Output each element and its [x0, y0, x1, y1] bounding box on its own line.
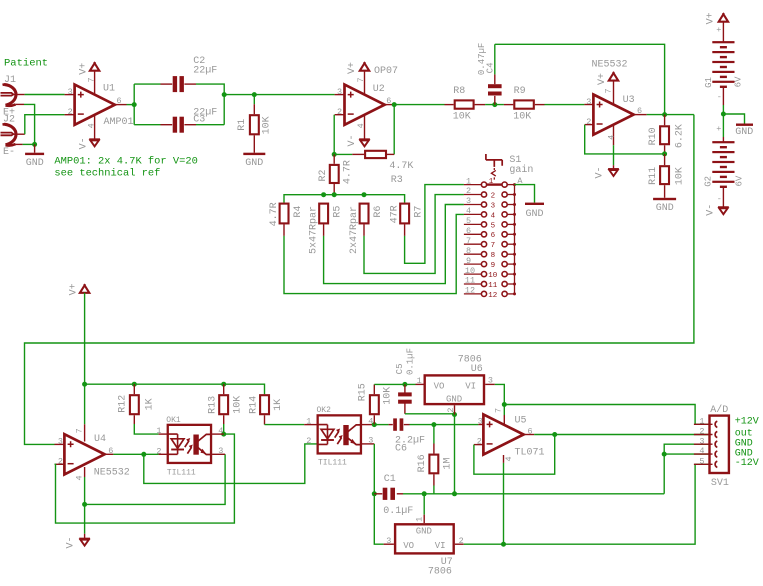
- svg-text:10K: 10K: [675, 167, 686, 185]
- svg-text:6V: 6V: [733, 76, 743, 87]
- svg-text:AMP01: AMP01: [104, 117, 134, 128]
- junction R6 top: [362, 192, 367, 197]
- svg-text:6: 6: [386, 96, 391, 106]
- svg-text:6: 6: [466, 226, 471, 236]
- junction bus at U4 pin7: [82, 382, 87, 387]
- wire U1 output to C2/C3 and U2 pin3: [127, 104, 135, 106]
- svg-text:U5: U5: [515, 415, 527, 426]
- svg-text:C1: C1: [384, 474, 396, 485]
- svg-text:V-: V-: [705, 204, 716, 216]
- ground battery GND: [736, 124, 753, 126]
- wire C3 to node: [196, 124, 224, 126]
- wire U3 pin4 to V-: [613, 145, 615, 165]
- ground patient GND: [34, 144, 36, 152]
- wire U5 pin4 to -12V rail: [503, 463, 505, 544]
- svg-text:U3: U3: [623, 95, 635, 106]
- svg-text:4: 4: [218, 426, 223, 436]
- supply V- at U1 pin4: [78, 137, 100, 149]
- svg-text:R16: R16: [417, 454, 428, 472]
- svg-text:4: 4: [356, 123, 366, 128]
- wire R14 to OK2 pin1: [265, 424, 305, 426]
- battery G1 6V: [704, 22, 743, 114]
- junction bus at R13: [221, 382, 226, 387]
- junction U5 output feedback: [552, 432, 557, 437]
- junction R5 top: [321, 192, 326, 197]
- svg-text:3: 3: [218, 446, 223, 456]
- junction U6 GND on rail: [452, 491, 457, 496]
- wire battery midpoint to GND: [723, 114, 744, 124]
- junction patient ground: [32, 142, 37, 147]
- svg-text:12: 12: [465, 286, 475, 296]
- capacitor C1 0.1uF: [374, 474, 413, 517]
- svg-text:7: 7: [491, 242, 496, 250]
- svg-text:3: 3: [478, 417, 483, 427]
- svg-text:A/D: A/D: [710, 404, 728, 416]
- svg-text:VI: VI: [465, 381, 476, 391]
- junction U1 output: [132, 102, 137, 107]
- svg-text:6: 6: [528, 427, 533, 437]
- svg-text:10K: 10K: [513, 112, 531, 123]
- resistor R14 1K: [249, 395, 285, 424]
- svg-text:V-: V-: [595, 166, 606, 178]
- svg-text:V-: V-: [78, 137, 89, 149]
- regulator U6 7806: [416, 355, 495, 415]
- svg-text:4.7R: 4.7R: [342, 160, 353, 184]
- svg-text:3: 3: [699, 436, 704, 446]
- svg-text:8: 8: [466, 246, 471, 256]
- op-amp U2 OP07: [335, 66, 398, 139]
- junction battery midpoint: [721, 112, 726, 117]
- svg-text:R3: R3: [391, 175, 403, 186]
- svg-text:4: 4: [466, 206, 471, 216]
- svg-text:3: 3: [368, 436, 373, 446]
- wire node to U2 pin3: [224, 94, 334, 96]
- svg-text:2: 2: [156, 446, 161, 456]
- junction SV1 ground pins: [662, 452, 667, 457]
- svg-text:6: 6: [491, 232, 496, 240]
- svg-text:10K: 10K: [261, 116, 272, 134]
- svg-text:see technical ref: see technical ref: [54, 167, 160, 179]
- svg-text:U2: U2: [373, 84, 385, 95]
- svg-text:+12V: +12V: [735, 417, 759, 428]
- svg-text:+: +: [716, 25, 721, 35]
- svg-text:R6: R6: [373, 206, 384, 218]
- svg-text:+: +: [716, 124, 721, 134]
- junction +12V at U5 pin7: [502, 402, 507, 407]
- supply V+ at U1 pin7: [78, 62, 99, 75]
- svg-text:R10: R10: [648, 127, 659, 145]
- wire R13 to OK1 pin4: [223, 424, 225, 434]
- svg-text:10: 10: [465, 266, 475, 276]
- supply V- at U3 pin4: [595, 165, 619, 178]
- svg-text:-: -: [717, 194, 722, 204]
- svg-text:2: 2: [477, 436, 482, 446]
- svg-text:C5: C5: [395, 363, 405, 374]
- svg-text:1K: 1K: [273, 399, 284, 411]
- wire U6 pin3 to +12V rail: [495, 384, 505, 404]
- resistor R13 10K: [208, 384, 244, 424]
- svg-text:6.2K: 6.2K: [675, 124, 686, 148]
- junction U7 GND on rail: [422, 491, 427, 496]
- supply V- at G2: [705, 204, 728, 216]
- junction C5 top: [402, 382, 407, 387]
- svg-text:2: 2: [68, 107, 73, 117]
- junction C1 left: [372, 491, 377, 496]
- svg-text:7: 7: [493, 408, 503, 413]
- svg-text:OK1: OK1: [166, 416, 181, 425]
- svg-text:U4: U4: [94, 434, 106, 445]
- svg-text:3: 3: [68, 87, 73, 97]
- junction C2/C3 node: [222, 92, 227, 97]
- svg-text:7: 7: [75, 428, 85, 433]
- svg-text:OP07: OP07: [374, 66, 398, 77]
- wire V+ rail to U4 pin7: [84, 293, 86, 425]
- svg-text:TL071: TL071: [515, 448, 545, 459]
- ground S1 GND: [525, 203, 544, 205]
- svg-text:4: 4: [86, 123, 96, 128]
- svg-text:4: 4: [606, 135, 616, 140]
- svg-text:U1: U1: [103, 83, 115, 94]
- svg-text:1: 1: [306, 417, 311, 427]
- wire J2 sleeve to ground node: [23, 143, 35, 145]
- svg-text:7: 7: [466, 236, 471, 246]
- svg-text:2: 2: [491, 192, 496, 200]
- svg-text:U6: U6: [471, 364, 483, 375]
- capacitor C3 22uF: [161, 107, 218, 132]
- wire C2 to node: [196, 84, 224, 125]
- svg-text:6: 6: [108, 446, 113, 456]
- svg-text:VO: VO: [403, 541, 414, 551]
- svg-text:-: -: [717, 92, 722, 102]
- svg-text:-12V: -12V: [735, 458, 759, 469]
- connector J1: [1, 75, 25, 106]
- svg-text:1K: 1K: [145, 398, 156, 410]
- svg-text:3: 3: [488, 375, 493, 385]
- svg-text:0.1µF: 0.1µF: [406, 348, 416, 375]
- supply V- at U4 pin4: [66, 534, 90, 549]
- svg-text:NE5532: NE5532: [94, 468, 130, 479]
- svg-text:GND: GND: [735, 127, 753, 138]
- svg-text:2: 2: [337, 107, 342, 117]
- svg-text:GND: GND: [416, 526, 432, 536]
- wire R12 to OK1 pin1: [134, 424, 158, 434]
- wire feedback R10/R11 to U3 pin2: [585, 125, 665, 154]
- svg-text:R4: R4: [293, 206, 304, 218]
- svg-text:2: 2: [58, 456, 63, 466]
- svg-text:4.7K: 4.7K: [389, 161, 413, 172]
- resistor R12 1K: [117, 384, 155, 424]
- junction R8/R9/C4: [492, 102, 497, 107]
- svg-text:3: 3: [58, 436, 63, 446]
- svg-text:V+: V+: [78, 63, 89, 75]
- svg-text:J2: J2: [3, 115, 15, 126]
- svg-text:12: 12: [488, 292, 497, 300]
- svg-text:5x47Rpar: 5x47Rpar: [308, 206, 319, 254]
- svg-text:J1: J1: [4, 75, 16, 86]
- svg-text:2: 2: [306, 436, 311, 446]
- svg-text:GND: GND: [656, 203, 674, 214]
- svg-text:8: 8: [491, 252, 496, 260]
- capacitor C2 22uF: [161, 56, 218, 92]
- wire U2 output to R3: [393, 105, 395, 155]
- svg-text:R12: R12: [117, 395, 128, 413]
- svg-text:AMP01: 2x 4.7K for V=20: AMP01: 2x 4.7K for V=20: [54, 155, 197, 167]
- svg-text:1: 1: [417, 376, 422, 386]
- wire R5 to S1 position 3: [324, 205, 464, 284]
- svg-text:3: 3: [466, 196, 471, 206]
- svg-text:2: 2: [586, 117, 591, 127]
- wire R9 to U3 pin3: [545, 104, 585, 106]
- resistor R11 10K: [648, 154, 686, 198]
- svg-text:NE5532: NE5532: [592, 60, 628, 71]
- svg-text:R8: R8: [453, 86, 465, 97]
- junction OK2 pin4 / R15: [372, 422, 377, 427]
- svg-text:gain: gain: [509, 164, 533, 176]
- svg-text:2: 2: [699, 427, 704, 437]
- resistor R4 4.7R: [269, 202, 304, 236]
- svg-text:7: 7: [86, 77, 96, 82]
- junction R2 top: [332, 152, 337, 157]
- ground below R1: [243, 153, 265, 155]
- svg-text:6V: 6V: [734, 175, 744, 186]
- op-amp U3 NE5532: [584, 60, 646, 146]
- optocoupler OK2 TIL111: [304, 406, 374, 467]
- resistor R10 6.2K: [648, 115, 686, 154]
- wire U5 output to SV1 pin2: [534, 434, 711, 436]
- svg-text:E-: E-: [3, 147, 15, 158]
- svg-text:V-: V-: [66, 536, 77, 548]
- wire OK1 pin4 to U4 pin2: [55, 434, 235, 523]
- svg-text:11: 11: [488, 282, 498, 290]
- svg-text:4.7R: 4.7R: [269, 202, 280, 226]
- junction R2 bottom: [332, 192, 337, 197]
- wire R4 to S1 position 4: [284, 214, 464, 293]
- capacitor C5 0.1uF: [395, 348, 416, 414]
- svg-text:R7: R7: [414, 206, 425, 218]
- svg-text:7: 7: [604, 88, 614, 93]
- junction R1 top: [252, 92, 257, 97]
- resistor R5 5x47Rpar: [308, 204, 343, 254]
- svg-text:R5: R5: [333, 206, 344, 218]
- svg-text:10K: 10K: [232, 396, 243, 414]
- junction U5 pin4 on -12V rail: [501, 542, 506, 547]
- svg-text:4: 4: [504, 456, 514, 461]
- junction U3 output: [662, 112, 667, 117]
- wire C5 bottom to U6 GND: [405, 413, 455, 416]
- svg-text:2x47Rpar: 2x47Rpar: [349, 206, 360, 254]
- connector J2: [1, 108, 25, 159]
- wire R7 to S1 position 1: [405, 185, 464, 264]
- junction R10/R11: [662, 151, 667, 156]
- wire U2 pin2 to R2 top node: [334, 115, 352, 155]
- svg-text:V+: V+: [705, 12, 716, 24]
- connector SV1 A/D: [694, 404, 729, 489]
- svg-text:1: 1: [156, 426, 161, 436]
- wire U3 output down-around to U4 pin3: [25, 115, 694, 445]
- ground below R11: [653, 198, 676, 200]
- svg-text:7: 7: [356, 77, 366, 82]
- svg-text:9: 9: [491, 262, 496, 270]
- wire R15 top to U6 pin1: [374, 383, 415, 385]
- svg-text:GND: GND: [26, 158, 44, 169]
- svg-text:1M: 1M: [443, 458, 454, 470]
- svg-text:10: 10: [488, 272, 498, 280]
- svg-text:5: 5: [466, 216, 471, 226]
- battery G2 6V: [703, 114, 744, 207]
- svg-text:TIL111: TIL111: [167, 468, 196, 477]
- junction U6 GND: [452, 412, 457, 417]
- svg-text:10K: 10K: [453, 112, 471, 123]
- regulator U7 7806: [384, 517, 464, 578]
- resistor R6 2x47Rpar: [349, 204, 384, 254]
- svg-text:GND: GND: [446, 395, 462, 405]
- svg-text:3: 3: [586, 97, 591, 107]
- resistor R15 10K: [357, 383, 393, 424]
- wire U7 pin1: [423, 494, 425, 515]
- wire R8 to R9 node: [485, 104, 504, 106]
- supply V+ mid rail: [69, 283, 90, 295]
- wire OK2 pin4 to C6: [374, 424, 388, 426]
- svg-text:R9: R9: [514, 86, 526, 97]
- svg-text:6: 6: [637, 106, 642, 116]
- supply V+ at U3 pin7: [597, 72, 618, 85]
- op-amp U5 TL071: [474, 408, 545, 463]
- capacitor C6 2.2uF: [389, 418, 425, 454]
- svg-text:V+: V+: [347, 62, 358, 74]
- svg-text:SV1: SV1: [711, 478, 729, 489]
- svg-text:3: 3: [337, 87, 342, 97]
- svg-text:VO: VO: [434, 381, 445, 391]
- wire U4 output to OK1 pin2: [113, 453, 158, 455]
- wire gain-set bus: [284, 195, 405, 203]
- wire J2 tip to U1 pin2: [25, 115, 65, 135]
- wire S1 common to ground: [515, 185, 535, 203]
- wire C4 to U3 output node: [494, 44, 496, 74]
- wire +12V rail to SV1 pin1: [504, 405, 711, 425]
- junction R16 top: [431, 422, 436, 427]
- rotary switch S1 gain: [464, 154, 534, 300]
- wire OK2 pin3 down to U7 VO: [374, 444, 383, 544]
- svg-text:6: 6: [117, 96, 122, 106]
- resistor R1 10K: [237, 95, 272, 153]
- svg-text:G1: G1: [704, 77, 714, 88]
- svg-text:2: 2: [446, 408, 456, 413]
- svg-text:VI: VI: [435, 541, 446, 551]
- svg-text:G2: G2: [703, 176, 713, 187]
- wire J1 tip to U1 pin3: [25, 94, 65, 96]
- svg-text:TIL111: TIL111: [318, 458, 347, 467]
- wire C6 to U5 pin3: [410, 424, 479, 426]
- svg-text:R13: R13: [208, 396, 219, 414]
- wire U4 output down to OK2 pin2: [144, 444, 317, 484]
- wire U5 pin2 feedback loop: [474, 435, 555, 475]
- svg-text:GND: GND: [525, 209, 543, 220]
- svg-text:R2: R2: [318, 169, 329, 181]
- wire SV1 pin3/pin4 ground: [664, 444, 711, 494]
- svg-text:2: 2: [466, 186, 471, 196]
- svg-text:4: 4: [75, 475, 85, 480]
- svg-text:47R: 47R: [389, 205, 400, 223]
- svg-text:1: 1: [415, 517, 425, 522]
- svg-text:R15: R15: [357, 383, 368, 401]
- svg-text:0.1µF: 0.1µF: [383, 506, 413, 517]
- svg-text:C6: C6: [395, 444, 407, 455]
- svg-text:22µF: 22µF: [193, 65, 217, 76]
- resistor R8 10K: [445, 86, 486, 123]
- wire J1 sleeve to ground node: [24, 104, 35, 144]
- svg-text:7806: 7806: [428, 567, 452, 578]
- supply V+ at U2 pin7: [347, 62, 369, 74]
- junction U4 pin4 branch: [82, 502, 87, 507]
- svg-text:R14: R14: [249, 396, 260, 414]
- svg-text:3: 3: [386, 536, 391, 546]
- resistor R3 4.7K: [352, 151, 413, 186]
- junction U2 output: [392, 102, 397, 107]
- wire U2 output to R8: [393, 104, 445, 106]
- svg-text:V+: V+: [597, 73, 608, 85]
- svg-text:GND: GND: [245, 158, 263, 169]
- wire R12/R13/R14 supply bus: [85, 384, 265, 394]
- resistor R7 47R: [389, 204, 424, 236]
- junction U4 output: [141, 452, 146, 457]
- wire R6 to S1 position 2: [364, 195, 464, 274]
- wire U6 GND to ground rail: [454, 415, 456, 494]
- svg-text:V-: V-: [347, 134, 358, 146]
- wire ground rail: [403, 493, 664, 495]
- svg-text:2: 2: [459, 536, 464, 546]
- svg-text:4: 4: [491, 212, 496, 220]
- supply V- at U2 pin4: [347, 134, 370, 146]
- resistor R16 1M: [417, 425, 454, 494]
- wire U3 output node: [647, 114, 694, 116]
- wire U5 pin7: [503, 405, 505, 416]
- svg-text:11: 11: [465, 276, 475, 286]
- svg-text:3: 3: [491, 202, 496, 210]
- resistor R9 10K: [504, 86, 545, 123]
- svg-text:5: 5: [491, 222, 496, 230]
- svg-text:R1: R1: [237, 119, 248, 131]
- optocoupler OK1 TIL111: [156, 416, 225, 477]
- svg-text:5: 5: [699, 456, 704, 466]
- wire OK1 pin3 to U4 pin4 node: [85, 454, 226, 504]
- capacitor C4 0.47uF: [477, 43, 502, 105]
- resistor R2 4.7R: [318, 154, 353, 194]
- op-amp U4 NE5532: [55, 428, 130, 480]
- svg-text:9: 9: [466, 256, 471, 266]
- op-amp U1 AMP01: [65, 71, 134, 140]
- svg-text:V+: V+: [69, 283, 80, 295]
- junction OK1 pin4 / R13: [221, 432, 226, 437]
- svg-text:C3: C3: [193, 114, 205, 125]
- svg-text:1: 1: [466, 176, 471, 186]
- svg-text:C4: C4: [485, 62, 495, 73]
- svg-text:1: 1: [699, 416, 704, 426]
- junction bus at R12: [132, 382, 137, 387]
- svg-text:Patient: Patient: [4, 57, 48, 69]
- wire U4 pin4 to V-: [84, 467, 86, 477]
- svg-text:R11: R11: [648, 167, 659, 185]
- svg-text:10K: 10K: [383, 387, 394, 405]
- svg-text:4: 4: [699, 446, 704, 456]
- svg-text:OK2: OK2: [317, 406, 332, 415]
- supply V+ at G1: [705, 12, 728, 24]
- wire U7 VI to -12V rail / SV1 pin5: [464, 464, 712, 544]
